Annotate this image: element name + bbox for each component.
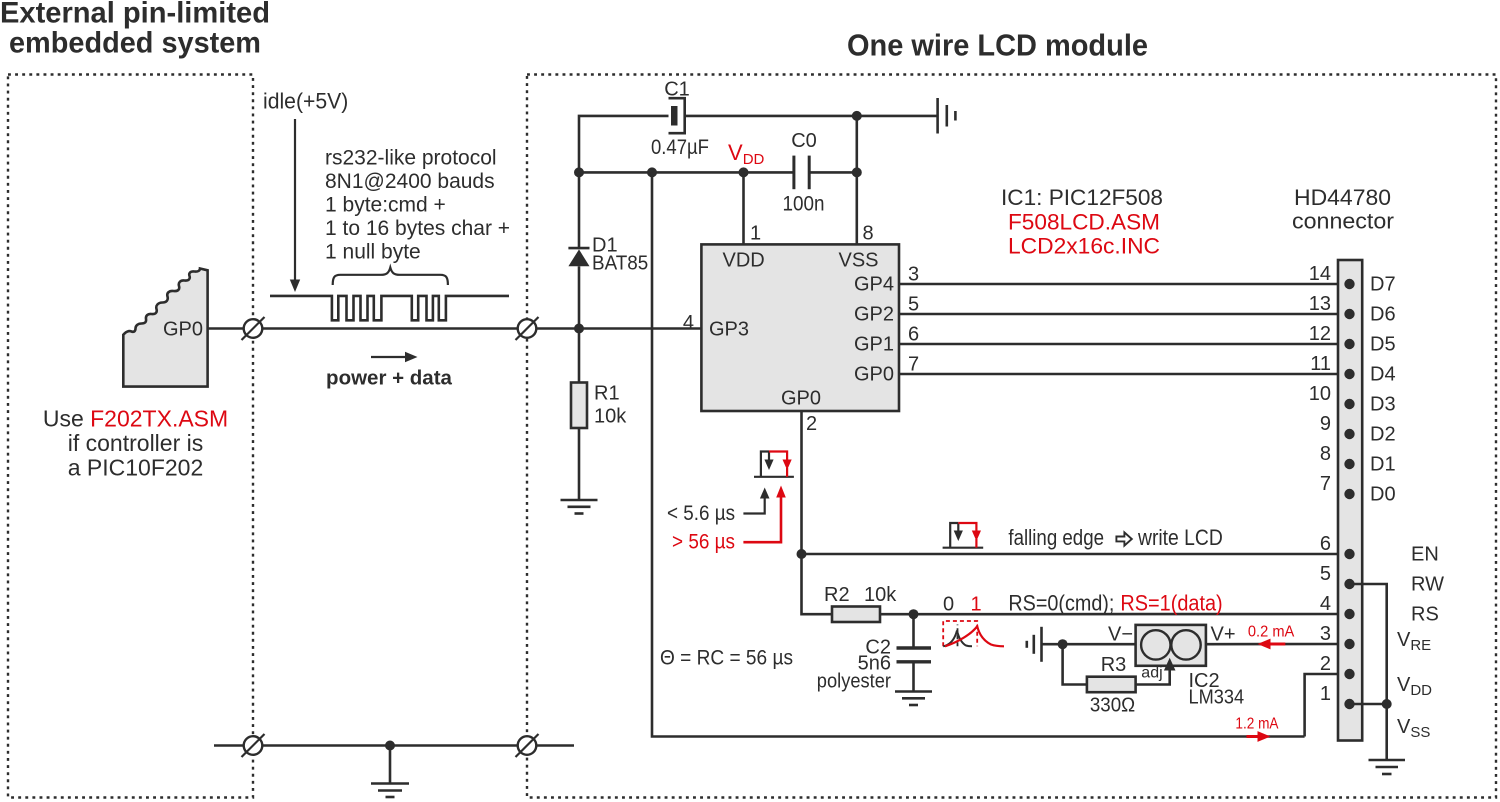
svg-text:D5: D5 xyxy=(1370,334,1396,356)
link connector (crossed circle) right-bottom xyxy=(516,734,539,757)
wire: one-wire to IC1 GP3 (pin 4) xyxy=(537,327,702,330)
svg-text:12: 12 xyxy=(1309,323,1331,345)
svg-text:6: 6 xyxy=(1320,533,1331,555)
junction: top rail / VSS column xyxy=(852,111,862,121)
svg-text:8: 8 xyxy=(863,223,874,245)
enclosure: external embedded system dotted box xyxy=(8,75,253,798)
link connector (crossed circle) right-top xyxy=(516,317,539,340)
svg-text:1 to 16 bytes char +: 1 to 16 bytes char + xyxy=(325,217,510,240)
IC2 LM334 current source xyxy=(1136,625,1206,666)
svg-text:14: 14 xyxy=(1309,263,1331,285)
svg-text:adj: adj xyxy=(1141,665,1162,682)
svg-text:rs232-like protocol: rs232-like protocol xyxy=(325,147,497,170)
HD44780 connector body xyxy=(1338,260,1362,741)
svg-text:V−: V− xyxy=(1108,624,1133,646)
svg-text:C1: C1 xyxy=(664,79,690,101)
resistor R2 xyxy=(832,607,880,623)
svg-text:falling edge: falling edge xyxy=(1008,525,1104,550)
svg-text:write LCD: write LCD xyxy=(1137,525,1223,550)
svg-text:0: 0 xyxy=(943,594,954,616)
link connector (crossed circle) left-bottom xyxy=(242,734,265,757)
svg-text:LCD2x16c.INC: LCD2x16c.INC xyxy=(1008,234,1160,259)
svg-text:1: 1 xyxy=(750,223,761,245)
svg-text:GP0: GP0 xyxy=(854,364,894,386)
svg-text:Use F202TX.ASM: Use F202TX.ASM xyxy=(43,406,228,432)
svg-text:D3: D3 xyxy=(1370,394,1396,416)
svg-text:GP4: GP4 xyxy=(854,274,894,296)
svg-text:GP0: GP0 xyxy=(781,388,821,410)
junction: VSS column on VDD rail xyxy=(852,167,862,177)
svg-text:D7: D7 xyxy=(1370,274,1396,296)
serial waveform xyxy=(270,296,509,320)
external MCU (torn-edge block) xyxy=(123,269,207,387)
junction: V- / R3 node xyxy=(1058,639,1068,649)
svg-text:1 null byte: 1 null byte xyxy=(325,241,421,264)
junction: GP3 node xyxy=(574,324,584,334)
svg-text:D2: D2 xyxy=(1370,424,1396,446)
svg-text:0.47µF: 0.47µF xyxy=(651,136,709,159)
capacitor C1 (polarized) xyxy=(669,98,685,133)
svg-text:< 5.6 µs: < 5.6 µs xyxy=(667,502,735,525)
wire: RS node to connector pin 4 xyxy=(914,613,1350,616)
wire: V- node down to R3 xyxy=(1063,644,1087,684)
wire: R2 to RS node xyxy=(880,613,914,616)
wire: C0 to VSS column xyxy=(809,171,857,174)
wire GP1 to connector pin 12 xyxy=(899,343,1350,346)
svg-text:VDD: VDD xyxy=(723,250,765,272)
svg-text:VSS: VSS xyxy=(839,250,879,272)
junction: VDD rail at pin1 column xyxy=(739,167,749,177)
svg-text:D4: D4 xyxy=(1370,364,1396,386)
svg-text:D1: D1 xyxy=(1370,454,1396,476)
svg-text:if controller is: if controller is xyxy=(68,430,203,456)
svg-text:2: 2 xyxy=(1320,653,1331,675)
wire: VDD feed down the left of IC1 to bottom rail xyxy=(652,172,1305,736)
curly brace over waveform xyxy=(333,268,448,286)
current arrow 0.2 mA (red) xyxy=(1258,639,1286,650)
connector signal names xyxy=(1370,274,1444,742)
pulse timing icon at EN line xyxy=(943,523,984,548)
svg-text:6: 6 xyxy=(908,324,919,346)
svg-text:10: 10 xyxy=(1309,383,1331,405)
enclosure: one wire LCD module dotted box xyxy=(527,75,1496,798)
svg-text:2: 2 xyxy=(806,413,817,435)
junction: VDD rail at D1 column xyxy=(574,167,584,177)
wire: V+ to connector pin 3 xyxy=(1206,643,1350,646)
wire: EN node to connector pin 6 xyxy=(802,553,1350,556)
arrow (red) to long-pulse edge xyxy=(743,486,785,543)
svg-text:10k: 10k xyxy=(864,584,897,606)
wire: R1 to ground xyxy=(578,428,581,500)
svg-text:connector: connector xyxy=(1292,209,1394,234)
ground (left of IC2, rotated) xyxy=(1027,627,1042,662)
wire: top rail left segment xyxy=(579,116,669,172)
svg-text:RS=1(data): RS=1(data) xyxy=(1120,591,1222,616)
svg-text:1 byte:cmd +: 1 byte:cmd + xyxy=(325,194,446,217)
ground (bottom left) xyxy=(371,746,409,798)
svg-text:embedded system: embedded system xyxy=(9,27,261,60)
wire GP2 to connector pin 13 xyxy=(899,313,1350,316)
svg-text:7: 7 xyxy=(1320,473,1331,495)
svg-text:RS: RS xyxy=(1411,604,1439,626)
svg-text:1: 1 xyxy=(970,594,981,616)
connector pin contacts xyxy=(1344,279,1354,709)
wire: pin1 VSS to ground rail xyxy=(1350,703,1387,706)
wire: RS node down to C2 xyxy=(912,614,915,647)
ground (below C2) xyxy=(895,692,932,706)
label falling edge => write LCD xyxy=(1008,525,1222,550)
svg-text:EN: EN xyxy=(1411,544,1439,566)
capacitor C2 xyxy=(897,648,932,662)
svg-text:idle(+5V): idle(+5V) xyxy=(263,89,348,114)
wire: bottom ground return (middle) xyxy=(263,744,518,747)
svg-text:0.2 mA: 0.2 mA xyxy=(1248,624,1295,641)
svg-text:R1: R1 xyxy=(594,383,620,405)
svg-text:> 56 µs: > 56 µs xyxy=(672,531,735,554)
wire: GP0 (pin2) down to EN node xyxy=(800,411,803,554)
svg-text:One wire LCD module: One wire LCD module xyxy=(847,28,1148,63)
wire: ground to V- node xyxy=(1042,643,1136,646)
svg-text:Θ = RC = 56 µs: Θ = RC = 56 µs xyxy=(660,647,793,670)
junction: RS node xyxy=(909,609,919,619)
label HD44780 connector xyxy=(1292,185,1394,234)
RC charge waveform sketch xyxy=(943,621,1004,646)
link connector (crossed circle) left-top xyxy=(242,317,265,340)
wire: EN node down to R2 xyxy=(802,554,833,614)
wire: R3 to adj pin xyxy=(1136,668,1170,685)
svg-text:GP2: GP2 xyxy=(854,304,894,326)
wire: VSS column (pin 8) xyxy=(855,116,858,245)
svg-text:100n: 100n xyxy=(783,193,825,216)
svg-text:power + data: power + data xyxy=(326,367,452,390)
diode D1 (BAT85) xyxy=(568,248,589,266)
pulse timing icon at GP0 pin2 xyxy=(754,452,794,477)
wire: one-wire bus xyxy=(263,327,518,330)
svg-text:3: 3 xyxy=(1320,623,1331,645)
arrow power+data xyxy=(371,352,418,362)
wire: VDD rail xyxy=(579,171,794,174)
svg-text:10k: 10k xyxy=(594,406,627,428)
svg-text:1.2 mA: 1.2 mA xyxy=(1235,716,1278,733)
svg-text:8N1@2400 bauds: 8N1@2400 bauds xyxy=(325,170,495,193)
svg-text:5: 5 xyxy=(1320,563,1331,585)
svg-text:11: 11 xyxy=(1310,353,1331,375)
svg-text:D0: D0 xyxy=(1370,484,1396,506)
svg-text:7: 7 xyxy=(908,354,919,376)
junction: EN node xyxy=(797,549,807,559)
svg-text:1: 1 xyxy=(1320,683,1331,705)
title: External pin-limited embedded system xyxy=(0,0,270,60)
wire: RW to ground rail xyxy=(1350,584,1387,704)
svg-text:GP0: GP0 xyxy=(163,319,203,341)
svg-text:IC1: PIC12F508: IC1: PIC12F508 xyxy=(1001,185,1163,210)
svg-text:330Ω: 330Ω xyxy=(1090,695,1135,717)
svg-text:RW: RW xyxy=(1411,574,1444,596)
svg-text:polyester: polyester xyxy=(817,671,892,693)
ground (top right, rotated) xyxy=(938,98,956,134)
junction: VDD rail at bottom-feed column xyxy=(647,167,657,177)
ground (below connector) xyxy=(1369,760,1406,774)
svg-text:13: 13 xyxy=(1309,293,1331,315)
svg-text:RS=0(cmd);: RS=0(cmd); xyxy=(1008,591,1114,616)
wire: D1 column upper xyxy=(578,172,581,248)
svg-text:LM334: LM334 xyxy=(1189,687,1245,709)
resistor R3 xyxy=(1087,677,1136,693)
svg-text:3: 3 xyxy=(908,264,919,286)
wire: bottom ground stub right of link xyxy=(537,744,575,747)
wire: GP3 node down to R1 xyxy=(578,329,581,383)
arrow (black) to short-pulse edge xyxy=(743,488,769,514)
svg-text:a PIC10F202: a PIC10F202 xyxy=(68,455,204,481)
svg-text:4: 4 xyxy=(1320,593,1331,615)
wire GP4 to connector pin 14 xyxy=(899,283,1350,286)
svg-text:5: 5 xyxy=(908,294,919,316)
wire: C2 to ground xyxy=(912,662,915,691)
IC1 PIC12F508 body xyxy=(701,244,899,411)
svg-text:External pin-limited: External pin-limited xyxy=(0,0,270,30)
wire: top rail right segment xyxy=(685,115,937,118)
arrow from idle label to waveform xyxy=(290,119,300,292)
junction: ground node right xyxy=(1382,699,1392,709)
adj pin arrow into IC2 xyxy=(1164,658,1176,671)
wire: pin2 drop from connector to bottom rail xyxy=(1305,674,1350,737)
wire: pin1 column xyxy=(742,172,745,244)
junction: bottom ground node xyxy=(385,741,395,751)
svg-text:HD44780: HD44780 xyxy=(1294,185,1391,210)
svg-text:GP1: GP1 xyxy=(854,334,894,356)
svg-text:BAT85: BAT85 xyxy=(592,253,648,275)
capacitor C0 xyxy=(794,156,809,190)
svg-text:4: 4 xyxy=(683,312,694,334)
connector pin numbers 14..1 xyxy=(1309,263,1331,705)
wire: D1 to GP3 node xyxy=(578,266,581,328)
resistor R1 xyxy=(571,383,587,429)
ground (below R1) xyxy=(561,500,598,514)
note: Use F202TX.ASM if controller is a PIC10F202 xyxy=(43,406,228,481)
svg-text:R3: R3 xyxy=(1101,654,1127,676)
svg-text:C0: C0 xyxy=(791,130,817,152)
svg-text:V+: V+ xyxy=(1211,624,1236,646)
svg-text:9: 9 xyxy=(1320,413,1331,435)
svg-text:D6: D6 xyxy=(1370,304,1396,326)
svg-text:R2: R2 xyxy=(824,584,850,606)
svg-text:F508LCD.ASM: F508LCD.ASM xyxy=(1008,210,1160,235)
svg-text:GP3: GP3 xyxy=(709,319,749,341)
svg-text:8: 8 xyxy=(1320,443,1331,465)
current arrow 1.2 mA (red) xyxy=(1247,731,1271,742)
wire GP0 to connector pin 11 xyxy=(899,373,1350,376)
wire: bottom ground return (left) xyxy=(214,744,244,747)
wire GP0 to link xyxy=(208,327,244,330)
label rs232 protocol xyxy=(325,147,510,264)
wire: down to ground xyxy=(1385,704,1388,759)
